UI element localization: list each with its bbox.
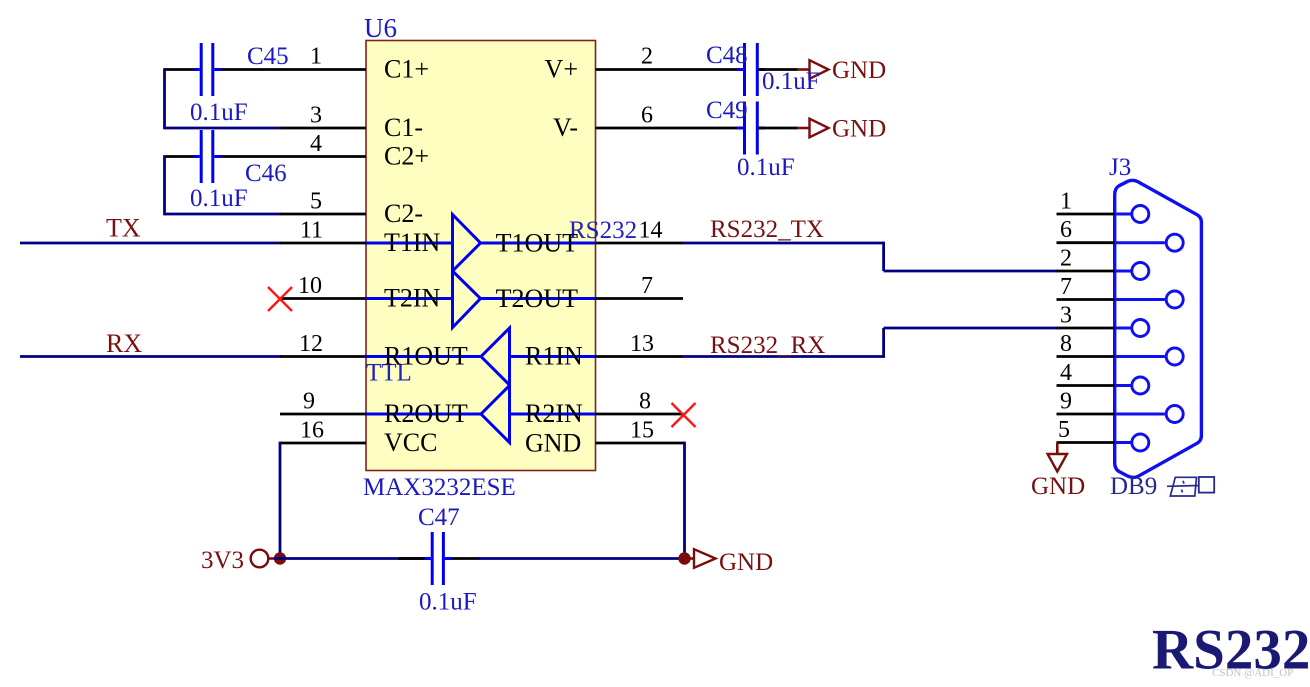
svg-text:RS232_TX: RS232_TX [710, 216, 824, 243]
svg-text:GND: GND [832, 57, 886, 84]
wire GND vertical to rail [683, 442, 686, 559]
hand-drawn hanzi kou [1199, 477, 1214, 493]
buffer T2 output wire [479, 297, 596, 300]
DB9 pin 6 hole [1166, 234, 1183, 251]
DB9 pin 9 stub [1115, 413, 1165, 416]
DB9 pin 7 line [1057, 298, 1115, 301]
pin 5 C2- black segment [280, 213, 366, 216]
svg-text:12: 12 [299, 331, 323, 357]
DB9 pin 4 stub [1115, 384, 1131, 387]
capacitor C46 [194, 130, 222, 183]
svg-text:CSDN @ADI_OP: CSDN @ADI_OP [1212, 667, 1293, 679]
svg-text:14: 14 [639, 218, 663, 244]
wire pin4 C2+ net [165, 155, 367, 158]
wire 3V3 rail right [478, 557, 685, 560]
pin 13 R1IN external [596, 355, 684, 358]
svg-text:RS232: RS232 [569, 217, 637, 244]
receiver buffer R2 output wire [366, 413, 482, 416]
DB9 pin 2 stub [1115, 270, 1131, 273]
DB9 pin 6 stub [1115, 241, 1165, 244]
power port 3V3 [201, 547, 275, 574]
svg-text:16: 16 [300, 418, 324, 444]
wire RS232_RX vertical bend [882, 328, 885, 358]
pin 14 T1OUT external [596, 242, 684, 245]
power port GND bottom [685, 549, 774, 576]
DB9 pin 7 hole [1166, 291, 1183, 308]
no-connect X on pin 10 [268, 287, 292, 311]
svg-text:C48: C48 [706, 42, 748, 69]
receiver buffer R2 triangle [481, 386, 510, 443]
DB9 pin 9 line [1057, 413, 1115, 416]
pin 15 GND external [596, 442, 685, 445]
power port GND top right 1 [797, 57, 886, 84]
svg-text:3: 3 [310, 103, 322, 129]
svg-text:3V3: 3V3 [201, 547, 244, 574]
svg-text:C2+: C2+ [384, 142, 429, 171]
receiver buffer R1 triangle [481, 328, 510, 385]
pin 8 R2IN external [596, 413, 684, 416]
wire VCC vertical to 3V3 rail [279, 442, 282, 559]
DB9 pin 9 hole [1166, 406, 1183, 423]
DB9 pin 8 hole [1166, 348, 1183, 365]
buffer T1 output wire [479, 242, 596, 245]
capacitor C45 [194, 43, 222, 96]
svg-text:R1OUT: R1OUT [384, 342, 468, 371]
capacitor C47 [398, 532, 480, 585]
wire net RX [20, 355, 281, 358]
svg-text:C1+: C1+ [384, 55, 429, 84]
buffer T1 input wire [366, 242, 453, 245]
svg-text:0.1uF: 0.1uF [737, 154, 795, 181]
DB9 pin 1 line [1057, 213, 1115, 216]
power port GND top right 2 [797, 116, 886, 143]
pin 11 T1IN [280, 242, 366, 245]
svg-text:13: 13 [630, 331, 654, 357]
svg-text:R2OUT: R2OUT [384, 399, 468, 428]
svg-text:4: 4 [310, 131, 322, 157]
capacitor C48 [737, 43, 765, 96]
svg-text:DB9: DB9 [1110, 473, 1157, 500]
svg-text:C46: C46 [245, 160, 287, 187]
DB9 pin 8 line [1057, 355, 1115, 358]
DB9 pin 2 line [1057, 270, 1115, 273]
svg-text:C45: C45 [247, 43, 289, 70]
svg-text:T1IN: T1IN [384, 228, 441, 257]
wire RS232_RX horizontal [682, 355, 884, 358]
pin 6 V- [596, 127, 741, 130]
svg-text:MAX3232ESE: MAX3232ESE [363, 474, 516, 501]
pin 9 R2OUT [280, 413, 366, 416]
svg-text:15: 15 [630, 418, 654, 444]
svg-text:4: 4 [1060, 360, 1072, 386]
svg-text:10: 10 [298, 273, 322, 299]
DB9 pin 6 line [1057, 241, 1115, 244]
DB9 pin 2 hole [1132, 263, 1149, 280]
svg-text:11: 11 [300, 218, 323, 244]
wire pin1 C1+ net [165, 68, 367, 71]
buffer T2 input wire [366, 297, 453, 300]
wire 3V3 rail left [274, 557, 431, 560]
pin 7 T2OUT external [596, 297, 684, 300]
svg-text:T2OUT: T2OUT [496, 284, 578, 313]
svg-text:0.1uF: 0.1uF [190, 99, 248, 126]
svg-text:8: 8 [639, 389, 651, 415]
svg-text:V-: V- [553, 113, 578, 142]
no-connect X on pin 8 [672, 403, 696, 427]
DB9 pin 3 hole [1132, 320, 1149, 337]
wire RS232_TX to DB9 pin2 [884, 270, 1058, 273]
pin 12 R1OUT [280, 355, 366, 358]
svg-text:GND: GND [1031, 473, 1085, 500]
DB9 pin 5 hole [1132, 434, 1149, 451]
svg-text:3: 3 [1060, 303, 1072, 329]
transmitter buffer T2 triangle [453, 271, 481, 328]
pin 2 V+ [596, 68, 741, 71]
svg-text:V+: V+ [545, 55, 578, 84]
svg-text:8: 8 [1060, 331, 1072, 357]
junction node 3V3/VCC [274, 552, 286, 564]
svg-text:6: 6 [1060, 217, 1072, 243]
svg-text:6: 6 [641, 103, 653, 129]
svg-text:5: 5 [310, 189, 322, 215]
DB9 pin 1 stub [1115, 213, 1131, 216]
wire pin3 C1- [165, 127, 282, 130]
svg-text:VCC: VCC [384, 428, 437, 457]
wire RS232_TX vertical bend [882, 242, 885, 271]
svg-text:T2IN: T2IN [384, 284, 441, 313]
svg-text:2: 2 [1060, 246, 1072, 272]
pin 10 T2IN [280, 297, 366, 300]
DB9 pin 3 stub [1115, 327, 1131, 330]
svg-text:GND: GND [525, 429, 581, 458]
hand-drawn hanzi mu [1167, 477, 1199, 496]
DB9 pin 3 line [1057, 327, 1115, 330]
svg-text:R1IN: R1IN [525, 342, 583, 371]
DB9 pin 7 stub [1115, 298, 1165, 301]
svg-text:C2-: C2- [384, 199, 423, 228]
svg-text:0.1uF: 0.1uF [190, 185, 248, 212]
receiver buffer R1 input wire [510, 355, 596, 358]
transmitter buffer T1 triangle [453, 215, 481, 272]
svg-text:7: 7 [641, 273, 653, 299]
svg-text:RS232_RX: RS232_RX [710, 332, 825, 359]
svg-text:0.1uF: 0.1uF [419, 589, 477, 616]
svg-text:9: 9 [1060, 389, 1072, 415]
op-amp U1 : MAX3232ESE chip body U6 [366, 41, 596, 471]
DB9 pin 5 stub [1115, 441, 1131, 444]
svg-text:GND: GND [719, 549, 773, 576]
svg-text:5: 5 [1058, 417, 1070, 443]
svg-text:9: 9 [303, 389, 315, 415]
svg-text:U6: U6 [364, 13, 397, 43]
DB9 pin 5 line [1057, 441, 1115, 444]
wire RS232_RX to DB9 pin3 [884, 327, 1058, 330]
wire C48 to GND [759, 68, 798, 71]
connector label DB9 mukou [1110, 473, 1214, 500]
svg-text:GND: GND [832, 116, 886, 143]
svg-text:RX: RX [106, 329, 142, 358]
DB9 pin 8 stub [1115, 355, 1165, 358]
wire C46 left vertical [163, 155, 166, 215]
svg-text:7: 7 [1060, 274, 1072, 300]
svg-text:TX: TX [106, 214, 141, 243]
wire C45 left vertical [163, 68, 166, 129]
wire pin5 C2- [165, 213, 282, 216]
svg-text:C49: C49 [706, 97, 748, 124]
pin 16 VCC [280, 442, 366, 445]
capacitor C49 [737, 102, 765, 155]
receiver buffer R2 input wire [510, 413, 596, 416]
svg-text:C47: C47 [418, 504, 460, 531]
svg-text:0.1uF: 0.1uF [762, 68, 820, 95]
svg-text:2: 2 [641, 44, 653, 70]
DB9 pin 4 line [1057, 384, 1115, 387]
pin 3 C1- black segment [280, 127, 366, 130]
svg-text:1: 1 [310, 44, 322, 70]
svg-text:1: 1 [1060, 189, 1072, 215]
junction node GND/C47 [678, 552, 690, 564]
svg-text:C1-: C1- [384, 113, 423, 142]
connector J3 DB9 outline [1115, 180, 1202, 477]
svg-text:T1OUT: T1OUT [496, 229, 578, 258]
wire net TX [20, 242, 281, 245]
receiver buffer R1 output wire [366, 355, 482, 358]
wire RS232_TX horizontal [682, 242, 884, 245]
power port GND at DB9 pin5 [1031, 443, 1085, 501]
svg-text:R2IN: R2IN [525, 399, 583, 428]
wire C49 to GND [759, 127, 798, 130]
DB9 pin 1 hole [1132, 206, 1149, 223]
svg-text:J3: J3 [1109, 154, 1131, 181]
DB9 pin 4 hole [1132, 377, 1149, 394]
